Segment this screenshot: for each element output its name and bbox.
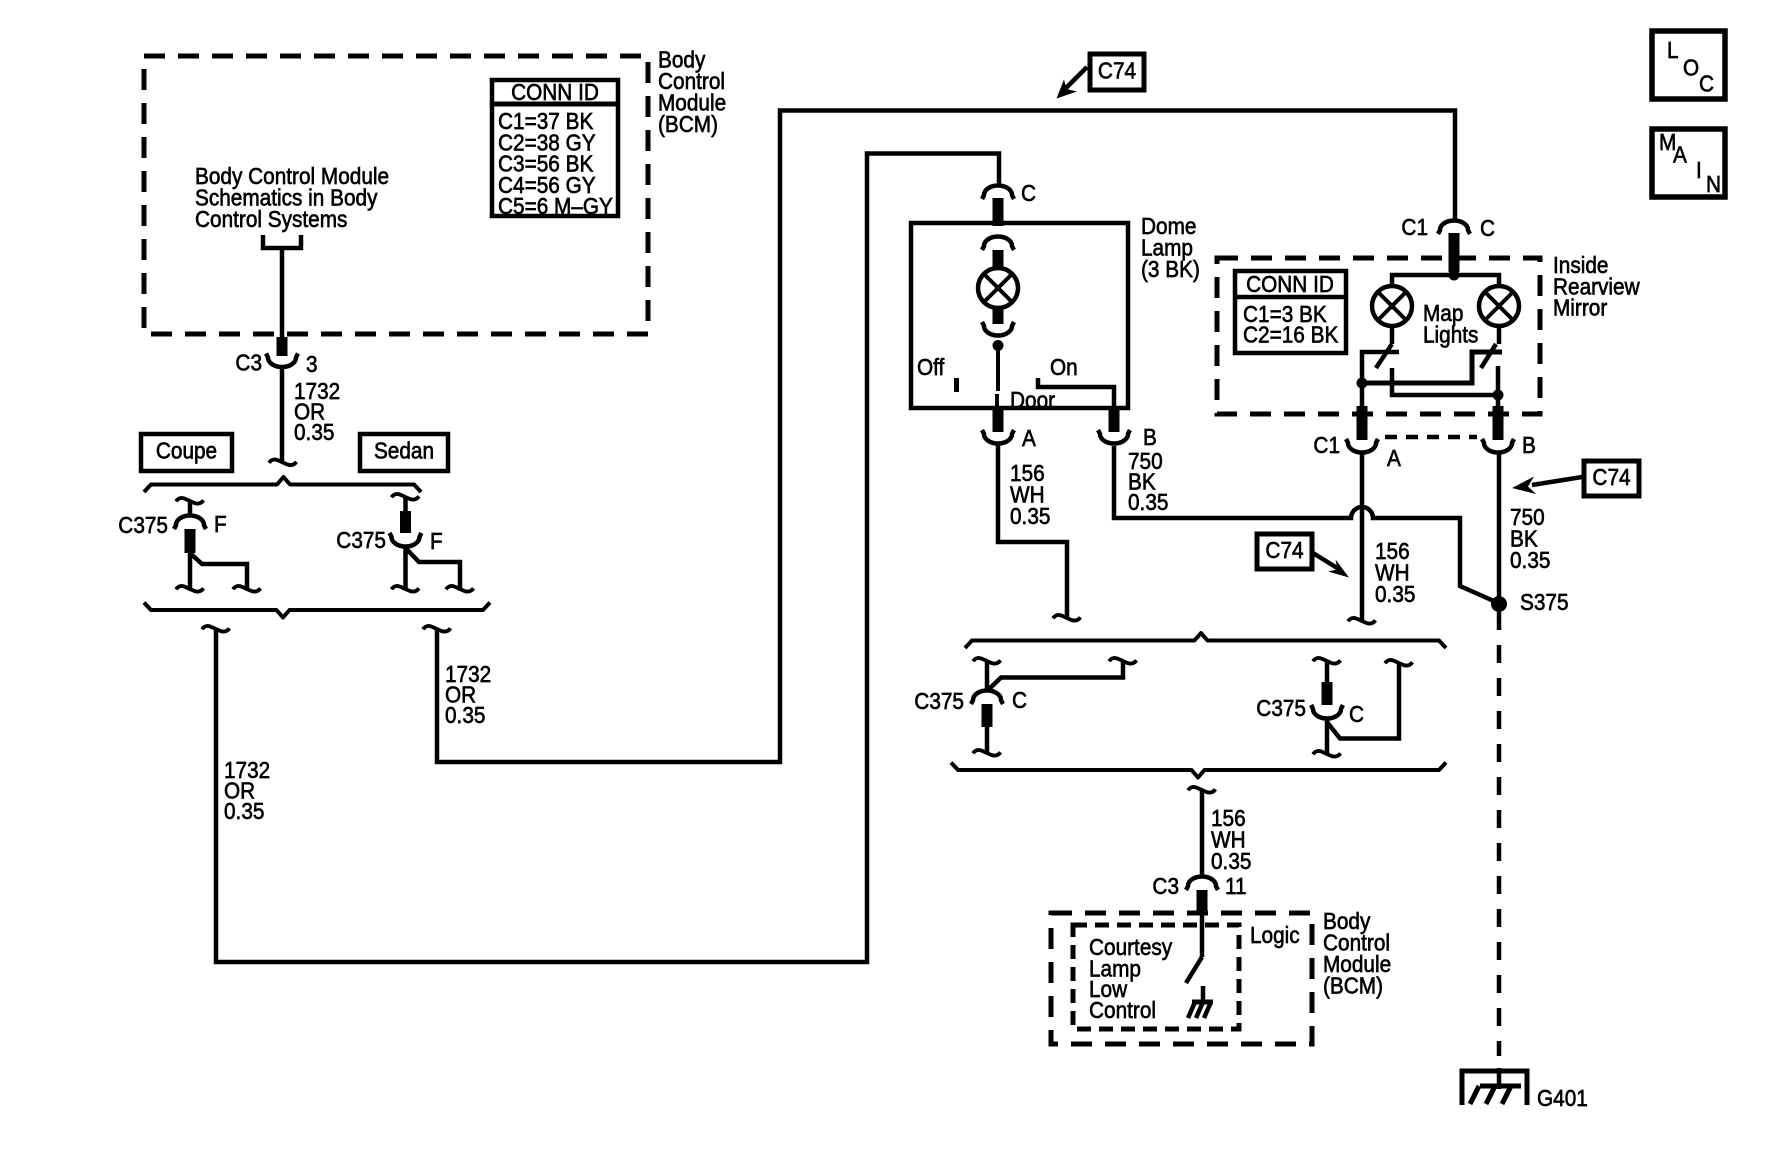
svg-text:(3 BK): (3 BK)	[1141, 256, 1200, 282]
svg-text:C3: C3	[1152, 873, 1179, 899]
svg-text:A: A	[1387, 445, 1401, 471]
svg-text:C74: C74	[1098, 57, 1136, 83]
svg-text:0.35: 0.35	[1510, 547, 1550, 573]
svg-text:Sedan: Sedan	[374, 437, 434, 463]
svg-text:Lights: Lights	[1423, 321, 1478, 347]
svg-text:C: C	[1480, 215, 1495, 241]
svg-text:F: F	[214, 511, 227, 537]
svg-text:CONN ID: CONN ID	[1246, 271, 1334, 297]
svg-text:C: C	[1012, 687, 1027, 713]
svg-text:C1: C1	[1313, 432, 1340, 458]
svg-text:C: C	[1349, 701, 1364, 727]
svg-text:CONN ID: CONN ID	[511, 79, 599, 105]
svg-text:C: C	[1699, 70, 1714, 96]
svg-text:C3: C3	[235, 349, 262, 375]
svg-text:C375: C375	[1256, 695, 1306, 721]
svg-text:(BCM): (BCM)	[658, 111, 718, 137]
svg-text:0.35: 0.35	[1010, 503, 1050, 529]
svg-text:Coupe: Coupe	[156, 437, 217, 463]
svg-text:0.35: 0.35	[1211, 848, 1251, 874]
svg-text:0.35: 0.35	[1375, 581, 1415, 607]
svg-text:B: B	[1522, 432, 1536, 458]
svg-text:A: A	[1022, 425, 1036, 451]
svg-text:C5=6 M–GY: C5=6 M–GY	[498, 193, 613, 219]
svg-text:Control: Control	[1089, 997, 1156, 1023]
svg-text:0.35: 0.35	[294, 419, 334, 445]
svg-text:I: I	[1696, 157, 1702, 183]
svg-text:On: On	[1050, 354, 1078, 380]
svg-text:0.35: 0.35	[445, 702, 485, 728]
svg-text:C375: C375	[336, 527, 386, 553]
svg-text:A: A	[1673, 141, 1687, 167]
svg-text:Logic: Logic	[1250, 922, 1300, 948]
svg-text:Control Systems: Control Systems	[195, 206, 347, 232]
svg-text:3: 3	[306, 351, 318, 377]
svg-text:N: N	[1706, 171, 1721, 197]
svg-text:L: L	[1667, 37, 1679, 63]
svg-text:C2=16 BK: C2=16 BK	[1243, 321, 1339, 347]
svg-text:0.35: 0.35	[1128, 489, 1168, 515]
svg-text:G401: G401	[1537, 1085, 1588, 1111]
svg-text:Door: Door	[1010, 387, 1056, 413]
svg-text:C375: C375	[914, 688, 964, 714]
svg-text:O: O	[1683, 54, 1699, 80]
svg-text:C74: C74	[1592, 464, 1630, 490]
svg-text:Mirror: Mirror	[1553, 294, 1608, 320]
svg-text:Off: Off	[917, 354, 945, 380]
svg-text:(BCM): (BCM)	[1323, 972, 1383, 998]
svg-text:11: 11	[1225, 873, 1247, 899]
svg-text:S375: S375	[1520, 589, 1569, 615]
svg-text:C74: C74	[1265, 537, 1303, 563]
svg-text:C: C	[1021, 180, 1036, 206]
svg-text:C375: C375	[118, 512, 168, 538]
svg-text:F: F	[430, 528, 443, 554]
svg-text:C1: C1	[1401, 214, 1428, 240]
svg-text:B: B	[1143, 424, 1157, 450]
svg-text:0.35: 0.35	[224, 798, 264, 824]
